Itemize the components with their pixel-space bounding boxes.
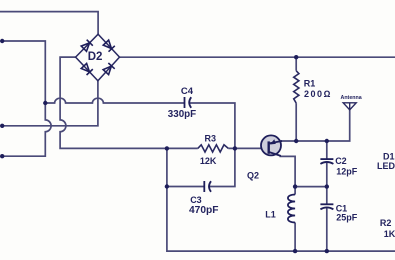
- svg-text:D1: D1: [383, 151, 395, 161]
- svg-text:1K: 1K: [384, 229, 395, 239]
- svg-text:470pF: 470pF: [189, 205, 218, 216]
- svg-text:D2: D2: [88, 51, 103, 63]
- svg-text:330pF: 330pF: [168, 109, 196, 120]
- svg-text:C2: C2: [335, 156, 347, 166]
- svg-text:R3: R3: [205, 133, 217, 143]
- svg-text:Antenna: Antenna: [341, 95, 362, 101]
- svg-text:C4: C4: [181, 86, 194, 97]
- svg-text:25pF: 25pF: [336, 213, 358, 223]
- svg-text:200Ω: 200Ω: [304, 89, 332, 99]
- svg-text:C3: C3: [190, 195, 202, 205]
- svg-text:Q2: Q2: [247, 171, 259, 181]
- svg-text:LED: LED: [377, 161, 395, 171]
- svg-text:12K: 12K: [200, 156, 217, 166]
- svg-text:12pF: 12pF: [336, 166, 358, 176]
- svg-text:R1: R1: [304, 78, 316, 88]
- svg-text:R2: R2: [380, 218, 392, 228]
- svg-text:L1: L1: [265, 209, 276, 219]
